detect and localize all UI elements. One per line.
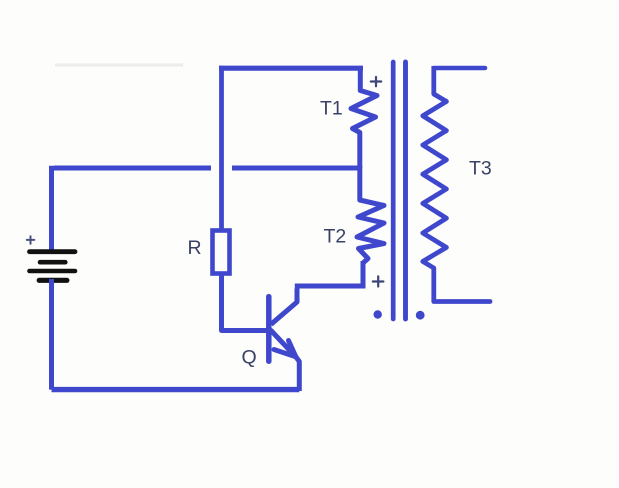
wire top horizontal bbox=[219, 66, 363, 71]
transformer winding T3 bbox=[423, 66, 447, 302]
svg-text:T2: T2 bbox=[324, 226, 347, 248]
plus sign T2 bbox=[373, 276, 384, 286]
battery BT1 bbox=[30, 252, 76, 281]
wire T3 bottom bbox=[434, 299, 490, 304]
battery plus sign bbox=[27, 236, 35, 244]
wire emitter vertical bbox=[296, 357, 299, 391]
svg-text:Q: Q bbox=[242, 347, 257, 369]
transformer winding T1 bbox=[351, 67, 377, 169]
svg-text:R: R bbox=[188, 237, 202, 259]
wire T3 top bbox=[434, 66, 485, 71]
transformer winding T2 bbox=[357, 166, 384, 263]
transistor Q collector bbox=[271, 289, 297, 325]
plus sign T1 bbox=[371, 77, 381, 86]
wire collector to T2 bbox=[295, 284, 366, 289]
wire resistor to base corner bbox=[222, 276, 267, 331]
erased faint line bbox=[55, 64, 183, 67]
transformer core line right bbox=[403, 62, 408, 319]
phase dot right bbox=[416, 311, 425, 320]
svg-text:T1: T1 bbox=[320, 98, 343, 120]
wire left vertical lower (battery to bottom wire) bbox=[49, 279, 54, 390]
wire bottom horizontal bbox=[52, 387, 300, 392]
wire left vertical upper (mid wire to battery) bbox=[49, 166, 54, 252]
wire mid horizontal right segment bbox=[232, 166, 359, 171]
wire mid horizontal left segment bbox=[54, 166, 211, 171]
transistor Q base bar bbox=[266, 297, 272, 362]
transformer core line left bbox=[391, 62, 396, 319]
transistor Q emitter with arrow bbox=[271, 331, 296, 357]
svg-text:T3: T3 bbox=[469, 157, 492, 179]
resistor R bbox=[213, 231, 230, 274]
phase dot left bbox=[374, 310, 382, 318]
wire left vertical from top wire to resistor bbox=[219, 66, 224, 229]
